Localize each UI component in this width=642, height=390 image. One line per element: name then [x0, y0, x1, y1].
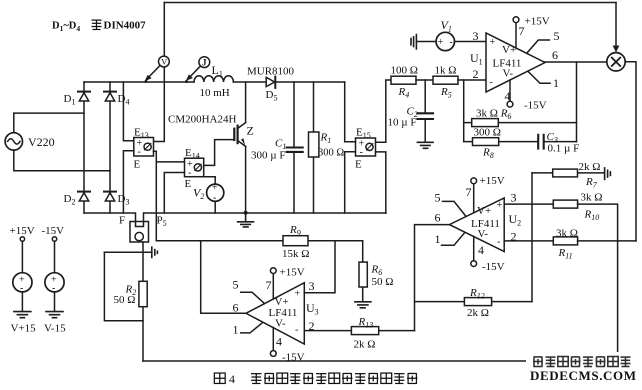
- svg-text:DEDECMS.COM: DEDECMS.COM: [530, 368, 637, 383]
- svg-text:-: -: [20, 283, 23, 294]
- label U1 pin7: [519, 24, 525, 38]
- svg-text:50 Ω: 50 Ω: [372, 276, 394, 288]
- svg-text:R6: R6: [371, 264, 383, 278]
- svg-text:U1: U1: [470, 51, 483, 67]
- resistor R8 300ohm with C3: [464, 138, 577, 146]
- junction dot emitter-rail: [244, 211, 248, 215]
- label U3 pin4: [276, 335, 282, 349]
- svg-text:R7: R7: [585, 176, 598, 190]
- svg-text:V-: V-: [503, 68, 514, 80]
- label R2: [125, 284, 137, 298]
- wire feedback left from pin2: [463, 80, 465, 142]
- wire bottom rail: [84, 213, 386, 222]
- resistor R11 3kohm: [553, 237, 636, 245]
- label plusminus V2: [212, 183, 218, 204]
- label V1: [441, 18, 452, 34]
- label 3kohm R11: [556, 228, 578, 240]
- transistor Z IGBT: [234, 123, 245, 147]
- svg-text:V-15: V-15: [44, 323, 66, 335]
- label U2 pin7: [466, 185, 472, 199]
- label U1: [470, 51, 483, 67]
- svg-text:D3: D3: [118, 193, 130, 207]
- wire E15 output up to R4: [376, 80, 392, 142]
- label U3 pin2: [309, 319, 315, 333]
- supply source V-15: [45, 237, 64, 311]
- stub U3 pin5: [241, 292, 265, 303]
- svg-text:7: 7: [266, 278, 272, 292]
- label U2 pin2: [511, 230, 517, 244]
- label -15V U2: [482, 261, 505, 273]
- label 2kohm R13: [354, 339, 376, 351]
- label plusminus E13: [137, 138, 143, 158]
- wire R7 node down to R12: [531, 173, 533, 302]
- label 15kohm: [282, 248, 309, 260]
- label U2 pin6: [435, 211, 441, 225]
- op-amp U2 LF411: [449, 198, 504, 252]
- svg-text:+: +: [295, 289, 301, 300]
- svg-text:+15V: +15V: [10, 225, 35, 237]
- wire U3 pin6 output to R9 left: [201, 241, 246, 314]
- label 100ohm: [391, 65, 418, 77]
- svg-text:10 µ F: 10 µ F: [388, 117, 417, 129]
- wire main bus y=82: [84, 81, 345, 83]
- svg-text:3k Ω R6: 3k Ω R6: [476, 108, 511, 122]
- caption text fake glyphs: [251, 373, 417, 384]
- diode D4: [104, 92, 116, 101]
- svg-text:DIN4007: DIN4007: [104, 20, 147, 32]
- svg-text:6: 6: [435, 211, 441, 225]
- svg-text:F: F: [119, 215, 125, 227]
- wire multiplier output down to R11: [625, 62, 636, 241]
- svg-text:-: -: [213, 193, 216, 204]
- resistor R1: [309, 82, 319, 213]
- svg-text:6: 6: [552, 48, 558, 62]
- supply source V+15: [13, 237, 32, 311]
- label plusminus E14: [187, 159, 193, 179]
- label 2kohm R12: [467, 307, 489, 319]
- label U1 pin2: [473, 67, 479, 81]
- svg-text:P5: P5: [157, 215, 167, 229]
- label R9: [289, 224, 301, 238]
- label P5: [157, 215, 167, 229]
- svg-text:R5: R5: [440, 86, 452, 100]
- svg-text:E: E: [185, 178, 192, 190]
- svg-text:3: 3: [473, 29, 479, 43]
- svg-text:100 Ω: 100 Ω: [391, 65, 418, 77]
- svg-text:3: 3: [309, 279, 315, 293]
- label R5: [440, 86, 452, 100]
- svg-text:-15V: -15V: [42, 225, 65, 237]
- label U1 pin1: [553, 76, 559, 90]
- svg-text:L1: L1: [212, 63, 223, 79]
- source V2: [207, 184, 224, 201]
- svg-text:V220: V220: [28, 135, 55, 149]
- svg-text:+15V: +15V: [280, 267, 305, 279]
- label 3kohm R6: [476, 108, 511, 122]
- bridge left vertical wire: [83, 82, 85, 213]
- svg-text:300 µ F: 300 µ F: [251, 150, 285, 162]
- label U3 inside: [269, 289, 301, 336]
- label C3: [547, 131, 558, 145]
- svg-text:R4: R4: [398, 86, 410, 100]
- label E under E13: [134, 159, 141, 171]
- wire E15 lower output to rail: [376, 152, 386, 213]
- label +15V left: [10, 225, 35, 237]
- ground under R6b: [355, 302, 371, 308]
- stub U1 pin5: [527, 40, 550, 53]
- label -15V U1: [524, 100, 547, 112]
- label 2kohm R7: [579, 161, 601, 173]
- label D1~D4 DIN4007 heading: [52, 20, 146, 34]
- wire V220 to bridge top: [14, 113, 84, 133]
- label U3: [306, 301, 319, 317]
- svg-text:-15V: -15V: [524, 100, 547, 112]
- resistor R7 2kohm to ground: [532, 169, 604, 177]
- svg-text:2k Ω: 2k Ω: [579, 161, 601, 173]
- resistor R2 50ohm: [139, 281, 147, 306]
- svg-text:+: +: [490, 37, 496, 48]
- label U1 pin5: [554, 29, 560, 43]
- svg-text:E: E: [134, 159, 141, 171]
- label R11: [558, 247, 573, 261]
- watermark line2: [530, 368, 637, 383]
- label CM200HA24H: [168, 114, 237, 126]
- label R12: [469, 287, 485, 301]
- svg-text:-: -: [52, 283, 55, 294]
- stub U3 pin1: [241, 323, 262, 333]
- wire top-rail right drop into multiplier: [613, 3, 620, 53]
- label U1 pin4: [505, 89, 511, 103]
- wire U2 pin2: [504, 240, 553, 242]
- meter J with arrow: [185, 57, 210, 83]
- svg-text:Z: Z: [247, 124, 254, 138]
- label U2: [509, 212, 522, 228]
- label R13: [358, 316, 374, 330]
- stub U2 pin1: [442, 233, 465, 245]
- diode D2: [78, 192, 90, 201]
- label U3 pin7: [266, 278, 272, 292]
- svg-text:4: 4: [505, 89, 511, 103]
- ground under V+15: [14, 312, 31, 318]
- label U1 pin6: [552, 48, 558, 62]
- ground under V-15: [46, 312, 63, 318]
- ground earth right-facing at R7: [605, 168, 611, 180]
- svg-text:D1~D4: D1~D4: [52, 21, 80, 34]
- wire U2 pin7 +15V: [471, 178, 477, 213]
- svg-text:2: 2: [473, 67, 479, 81]
- label 50ohm R6b: [372, 276, 394, 288]
- svg-text:2k Ω: 2k Ω: [354, 339, 376, 351]
- label R6b: [371, 264, 383, 278]
- svg-text:V+15: V+15: [11, 323, 37, 335]
- wire U1 pin4 -15V: [507, 80, 513, 107]
- wire V220 to bridge bottom: [14, 150, 110, 171]
- svg-text:MUR8100: MUR8100: [247, 66, 295, 78]
- ground main under rail: [238, 213, 254, 227]
- svg-text:V+: V+: [502, 44, 516, 56]
- wire U2 pin3: [504, 203, 553, 205]
- svg-text:U3: U3: [306, 301, 319, 317]
- label R8: [482, 147, 494, 161]
- label C2: [407, 106, 418, 120]
- label 10uF: [388, 117, 417, 129]
- wire feedback node from pin6: [576, 62, 578, 142]
- bridge right vertical wire: [109, 82, 111, 213]
- label MUR8100: [247, 66, 295, 78]
- wire V1 to U1 pin3: [455, 41, 487, 43]
- label D4: [118, 93, 130, 107]
- svg-text:R11: R11: [558, 247, 573, 261]
- wire V2 to bottom rail: [214, 201, 216, 213]
- resistor R6 3kohm feedback: [464, 119, 577, 127]
- label U2 inside: [471, 200, 503, 248]
- label Z: [247, 124, 254, 138]
- watermark background halo: [526, 352, 638, 383]
- label R1: [320, 132, 332, 146]
- label E under E15: [355, 159, 362, 171]
- label E14: [185, 147, 200, 161]
- label V-15: [44, 323, 66, 335]
- svg-text:R13: R13: [358, 316, 374, 330]
- wire top-rail left drop to E13 output: [154, 3, 165, 142]
- wire U3 pin2: [304, 330, 351, 332]
- svg-text:5: 5: [554, 29, 560, 43]
- svg-text:-15V: -15V: [482, 261, 505, 273]
- fake glyph xuan: [92, 20, 102, 30]
- stub U2 pin5: [443, 201, 467, 216]
- svg-text:R1: R1: [320, 132, 332, 146]
- svg-text:V-: V-: [478, 228, 489, 240]
- label U2 pin3: [511, 191, 517, 205]
- label U3 pin3: [309, 279, 315, 293]
- AC source V220: [5, 133, 22, 150]
- resistor R9 15kohm: [283, 236, 308, 246]
- label D1: [64, 93, 76, 107]
- wire ground stub at P5: [104, 251, 150, 253]
- svg-text:-: -: [360, 147, 363, 158]
- svg-text:7: 7: [466, 185, 472, 199]
- capacitor C3: [538, 135, 544, 149]
- wire E14 output to IGBT gate: [204, 140, 235, 166]
- capacitor C1: [287, 82, 303, 213]
- svg-text:-: -: [188, 167, 191, 178]
- label -15V left: [42, 225, 65, 237]
- svg-text:D4: D4: [118, 93, 130, 107]
- svg-text:1: 1: [435, 232, 441, 246]
- label R7: [585, 176, 598, 190]
- svg-text:1: 1: [233, 323, 239, 337]
- label +15V U3: [280, 267, 305, 279]
- wire bottom long bus: [143, 360, 618, 362]
- svg-text:300 Ω: 300 Ω: [474, 127, 501, 139]
- diode D1: [78, 92, 90, 101]
- wire U3 pin3 up to R9: [304, 241, 335, 293]
- resistor R4 100ohm: [391, 76, 416, 84]
- wire P5 down through R2 to bottom bus: [142, 242, 144, 361]
- svg-text:D1: D1: [64, 93, 76, 107]
- label E under E14: [185, 178, 192, 190]
- wire E13 output lower to R9 node and E14: [154, 151, 185, 240]
- wire U3 pin7 +15V: [270, 268, 276, 300]
- svg-text:+: +: [497, 200, 503, 211]
- label D5: [266, 89, 278, 103]
- wire U1 pin7 +15V: [513, 17, 519, 48]
- svg-text:R9: R9: [289, 224, 301, 238]
- label +15V U1: [525, 16, 550, 28]
- svg-text:V+: V+: [477, 205, 491, 217]
- label 300uF: [251, 150, 285, 162]
- wire R9 line: [156, 240, 362, 242]
- op-amp U3 LF411: [246, 283, 304, 344]
- svg-text:4: 4: [478, 243, 484, 257]
- wire IGBT emitter to rail: [245, 146, 247, 213]
- svg-text:E: E: [355, 159, 362, 171]
- op-amp U1 LF411: [486, 33, 545, 92]
- wire R4 to R5: [416, 79, 433, 81]
- resistor R5 1kohm: [433, 76, 458, 84]
- resistor R12 2kohm: [415, 298, 533, 306]
- label U3 pin1: [233, 323, 239, 337]
- svg-text:5: 5: [233, 278, 239, 292]
- resistor R13 2kohm: [351, 327, 414, 335]
- svg-text:V-: V-: [275, 318, 286, 330]
- svg-text:U2: U2: [509, 212, 522, 228]
- svg-text:50 Ω: 50 Ω: [114, 294, 136, 306]
- wire E13 plus input from main bus: [123, 82, 133, 141]
- label U1 pin3: [473, 29, 479, 43]
- fuse box P5: [130, 222, 149, 243]
- wire ground to V1: [417, 41, 436, 43]
- svg-text:6: 6: [233, 301, 239, 315]
- label R4: [398, 86, 410, 100]
- label plusminus V-15: [51, 275, 57, 295]
- svg-text:+15V: +15V: [525, 16, 550, 28]
- wire U1 pin6 to multiplier: [545, 61, 607, 63]
- svg-text:-: -: [138, 147, 141, 158]
- svg-text:0.1 µ F: 0.1 µ F: [548, 143, 580, 155]
- svg-text:V1: V1: [441, 18, 452, 34]
- label 0.1uF: [548, 143, 580, 155]
- wire E13 minus to bottom rail: [123, 151, 133, 213]
- label 300ohm R8: [474, 127, 501, 139]
- svg-text:R8: R8: [482, 147, 494, 161]
- label 3kohm R10: [581, 192, 603, 204]
- label U3 pin5: [233, 278, 239, 292]
- svg-text:CM200HA24H: CM200HA24H: [168, 114, 237, 126]
- resistor R6b 50ohm to ground: [359, 241, 367, 302]
- label E15: [356, 127, 371, 141]
- inductor L1: [194, 76, 233, 82]
- svg-text:+: +: [438, 37, 444, 48]
- label D3: [118, 193, 130, 207]
- diode D5 MUR8100: [266, 77, 275, 88]
- ground earth left-facing at V1: [411, 35, 416, 50]
- label 50ohm R2: [114, 294, 136, 306]
- label 1kohm: [435, 65, 457, 77]
- svg-text:5: 5: [435, 191, 441, 205]
- sensor box E13: [134, 138, 154, 157]
- source V1: [436, 32, 454, 50]
- wire R5 to U1 pin2: [458, 79, 486, 81]
- svg-text:2: 2: [309, 319, 315, 333]
- svg-text:-15V: -15V: [282, 352, 305, 364]
- wire U3 pin4 -15V: [270, 328, 276, 357]
- svg-text:-: -: [450, 37, 453, 48]
- label plusminus E15: [359, 138, 365, 158]
- svg-text:V: V: [161, 57, 168, 67]
- label U1 inside: [490, 37, 522, 88]
- svg-text:3k Ω: 3k Ω: [556, 228, 578, 240]
- label 300ohm: [318, 148, 344, 159]
- multiplier: [607, 53, 625, 71]
- stub U1 pin1: [528, 72, 550, 84]
- label +15V U2: [480, 175, 505, 187]
- label meter J: [202, 57, 207, 67]
- label plusminus V1: [438, 37, 453, 48]
- svg-text:3: 3: [511, 191, 517, 205]
- wire U2 pin4 -15V: [471, 236, 477, 266]
- ground earth right-facing at P5: [152, 247, 158, 257]
- label C1: [275, 138, 286, 152]
- watermark line1 fake glyphs: [533, 357, 631, 367]
- label F: [119, 215, 125, 227]
- svg-text:R12: R12: [469, 287, 485, 301]
- label meter v: [161, 57, 168, 67]
- sensor box E15: [356, 138, 376, 156]
- svg-text:R10: R10: [584, 209, 600, 223]
- diode D3: [104, 192, 116, 201]
- svg-text:D5: D5: [266, 89, 278, 103]
- svg-text:+15V: +15V: [480, 175, 505, 187]
- svg-text:J: J: [202, 57, 207, 67]
- wire top rail: [164, 2, 616, 4]
- label E13: [134, 127, 149, 141]
- svg-text:1: 1: [553, 76, 559, 90]
- label -15V U3: [282, 352, 305, 364]
- caption figure 4: [214, 373, 225, 383]
- label U2 pin4: [478, 243, 484, 257]
- svg-text:-: -: [490, 77, 493, 88]
- svg-text:300 Ω: 300 Ω: [318, 148, 344, 159]
- wire E14 minus to bottom rail: [164, 173, 184, 214]
- svg-text:V2: V2: [193, 186, 204, 202]
- label D2: [64, 193, 76, 207]
- svg-text:-: -: [295, 325, 298, 336]
- svg-text:-: -: [497, 237, 500, 248]
- svg-text:4: 4: [276, 335, 282, 349]
- label V+15: [11, 323, 37, 335]
- label U3 pin6: [233, 301, 239, 315]
- wire IGBT collector to main bus: [245, 82, 247, 123]
- sensor box E14: [185, 158, 204, 177]
- label L1: [212, 63, 223, 79]
- label plusminus V+15: [19, 275, 25, 295]
- svg-text:1k Ω: 1k Ω: [435, 65, 457, 77]
- svg-text:10 mH: 10 mH: [200, 87, 230, 99]
- wire E14 to V2: [204, 177, 216, 184]
- resistor R10 3kohm: [553, 200, 617, 361]
- svg-text:D2: D2: [64, 193, 76, 207]
- label V220: [28, 135, 55, 149]
- svg-text:2k Ω: 2k Ω: [467, 307, 489, 319]
- label R10: [584, 209, 600, 223]
- label 10 mH: [200, 87, 230, 99]
- wire loop P5 left branch: [104, 252, 143, 320]
- svg-text:4: 4: [229, 372, 235, 386]
- label V2: [193, 186, 204, 202]
- label U2 pin1: [435, 232, 441, 246]
- capacitor C2 with ground: [417, 80, 433, 148]
